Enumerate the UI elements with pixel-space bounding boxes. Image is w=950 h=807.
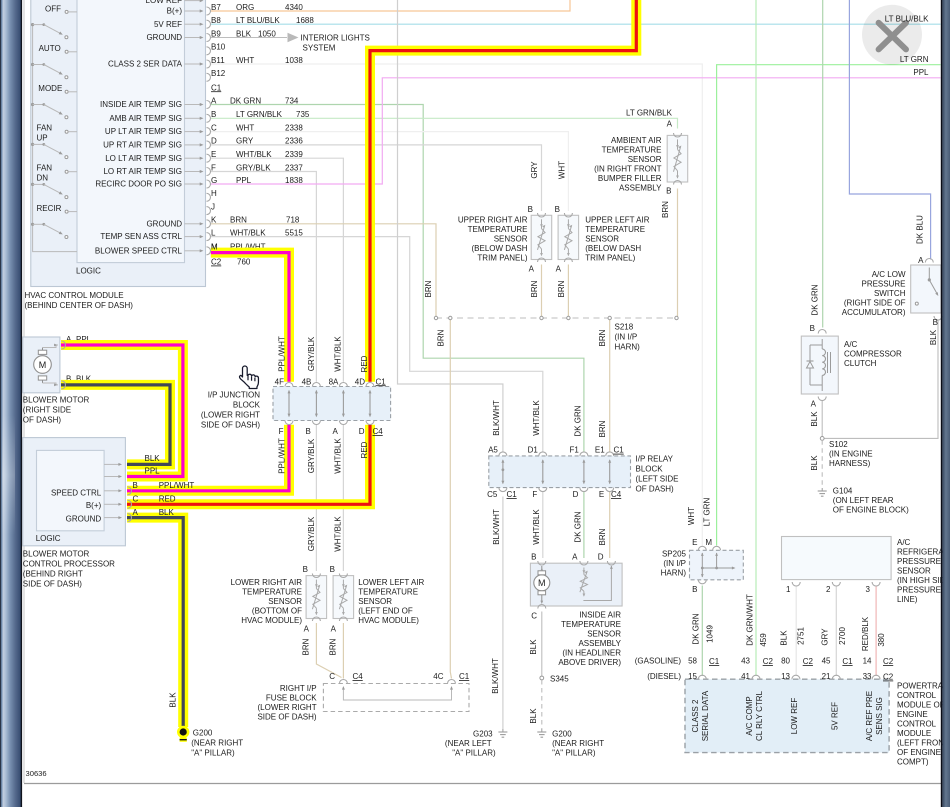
svg-text:LT GRN/BLK: LT GRN/BLK: [236, 110, 283, 119]
svg-text:BLOCK: BLOCK: [233, 401, 261, 410]
wire BLK dashed from splice S345 to ground G200: [541, 680, 543, 729]
svg-text:718: 718: [286, 216, 300, 225]
svg-text:TRIM PANEL): TRIM PANEL): [477, 254, 527, 263]
svg-text:SWITCH: SWITCH: [874, 289, 906, 298]
svg-text:D: D: [359, 427, 365, 436]
svg-text:1050: 1050: [258, 29, 276, 38]
svg-text:GRY/BLK: GRY/BLK: [307, 516, 316, 551]
svg-text:DK GRN: DK GRN: [811, 284, 820, 315]
wire DK GRN 734 from pin A to I/P relay block pin F1: [211, 105, 584, 452]
svg-text:1838: 1838: [285, 176, 303, 185]
svg-text:SENS SIG: SENS SIG: [875, 697, 884, 735]
svg-text:1049: 1049: [706, 625, 715, 643]
svg-text:B8: B8: [211, 16, 221, 25]
svg-text:PPL: PPL: [913, 68, 929, 77]
svg-text:UPPER LEFT AIR: UPPER LEFT AIR: [585, 216, 650, 225]
svg-text:S102: S102: [829, 440, 848, 449]
wire BLK 1050 from pin B9 to interior lights arrow: [211, 37, 287, 39]
svg-text:LOWER LEFT AIR: LOWER LEFT AIR: [358, 578, 424, 587]
svg-text:INSIDE AIR: INSIDE AIR: [579, 611, 621, 620]
wire BRN lower right sensor pin A to fuse block pin C: [316, 623, 341, 678]
svg-text:(BOTTOM OF: (BOTTOM OF: [252, 607, 302, 616]
svg-text:A: A: [811, 400, 817, 409]
svg-text:UP LT AIR TEMP SIG: UP LT AIR TEMP SIG: [105, 127, 182, 136]
HVAC module connector C1 pin rows B7-B12: [207, 7, 211, 15]
svg-text:(BEHIND RIGHT: (BEHIND RIGHT: [23, 570, 83, 579]
wire WHT 1038 from pin B11 to SP205 pin E: [211, 64, 703, 546]
svg-text:LOW REF: LOW REF: [146, 0, 183, 5]
wire ORG 4340 from pin B7 to top edge: [211, 0, 570, 11]
svg-text:F: F: [211, 163, 216, 172]
svg-text:2: 2: [826, 585, 831, 594]
svg-text:COMPRESSOR: COMPRESSOR: [844, 350, 902, 359]
junction block pin 4B (top) / B (bottom) with pass-through: [312, 383, 320, 387]
svg-text:CLASS 2 SER DATA: CLASS 2 SER DATA: [108, 60, 183, 69]
svg-text:C1: C1: [507, 490, 518, 499]
svg-text:A/C: A/C: [897, 538, 911, 547]
wire BRN from splice S218 down to fuse block pin 4C: [450, 318, 451, 679]
svg-text:30636: 30636: [26, 769, 47, 778]
svg-text:BUMPER FILLER: BUMPER FILLER: [598, 174, 662, 183]
svg-text:BLK: BLK: [810, 411, 819, 427]
mouse cursor hand pointer: [240, 366, 259, 389]
svg-text:TEMPERATURE: TEMPERATURE: [242, 588, 302, 597]
wire GRY/BLK 2337 from pin F to I/P junction block pin 4B: [211, 172, 317, 382]
processor BLK input pin from blower motor: [104, 463, 118, 465]
svg-text:BLOCK: BLOCK: [636, 465, 664, 474]
inside air sensor pins B A D C: [538, 561, 546, 565]
highlighted wire BLK blower motor pin B to processor BLK input: [61, 385, 170, 465]
svg-text:LT GRN/BLK: LT GRN/BLK: [626, 109, 673, 118]
svg-text:1: 1: [786, 585, 791, 594]
svg-text:SIDE OF DASH): SIDE OF DASH): [257, 713, 316, 722]
svg-text:SENSOR: SENSOR: [585, 235, 619, 244]
svg-text:B: B: [555, 205, 560, 214]
right I/P fuse block: [323, 684, 469, 712]
svg-text:LOGIC: LOGIC: [76, 267, 101, 276]
wire BLK dashed from splice S102 to ground G104: [821, 440, 823, 488]
svg-text:MODULE OR: MODULE OR: [897, 701, 946, 710]
svg-text:2336: 2336: [285, 137, 303, 146]
svg-text:BLK: BLK: [159, 508, 175, 517]
svg-text:A: A: [918, 256, 924, 265]
svg-text:LT GRN: LT GRN: [703, 497, 712, 526]
svg-text:J: J: [211, 202, 215, 211]
svg-text:SENSOR: SENSOR: [494, 235, 528, 244]
svg-text:PPL: PPL: [145, 467, 161, 476]
svg-text:C1: C1: [376, 377, 387, 386]
svg-text:A: A: [133, 508, 139, 517]
svg-text:13: 13: [781, 672, 790, 681]
svg-text:4B: 4B: [302, 377, 312, 386]
wire BRN from splice S218 down to I/P relay block pin E1: [609, 318, 611, 452]
svg-text:21: 21: [822, 672, 831, 681]
svg-text:TRIM PANEL): TRIM PANEL): [585, 254, 635, 263]
svg-text:B: B: [692, 585, 697, 594]
svg-text:OFF: OFF: [45, 4, 61, 13]
svg-text:41: 41: [741, 672, 750, 681]
wire BRN upper right air temperature sensor pin A to splice S218: [541, 265, 543, 319]
svg-text:L: L: [211, 228, 216, 237]
wire LT GRN/BLK 735 from pin B to ambient air temperature sensor pin A: [211, 118, 678, 128]
svg-text:TEMPERATURE: TEMPERATURE: [358, 588, 418, 597]
svg-text:D: D: [598, 553, 604, 562]
powertrain control module PCM: [685, 679, 889, 752]
svg-text:PPL/WHT: PPL/WHT: [159, 481, 195, 490]
svg-text:SENSOR: SENSOR: [628, 155, 662, 164]
svg-text:UP RT AIR TEMP SIG: UP RT AIR TEMP SIG: [103, 141, 182, 150]
svg-text:FAN: FAN: [37, 163, 53, 172]
svg-text:CONTROL PROCESSOR: CONTROL PROCESSOR: [23, 560, 115, 569]
svg-text:B7: B7: [211, 3, 221, 12]
svg-text:4D: 4D: [355, 377, 365, 386]
svg-text:GRY: GRY: [821, 628, 830, 646]
svg-text:HARNESS): HARNESS): [829, 459, 871, 468]
svg-text:BRN: BRN: [230, 216, 247, 225]
svg-text:C1: C1: [459, 672, 470, 681]
svg-text:OF ENGINE BLOCK): OF ENGINE BLOCK): [833, 506, 909, 515]
svg-text:BLK: BLK: [236, 29, 252, 38]
svg-text:CONTROL: CONTROL: [897, 691, 937, 700]
svg-text:UPPER RIGHT AIR: UPPER RIGHT AIR: [458, 216, 528, 225]
wire WHT/BLK 5515 from pin L to I/P relay block pin D1: [211, 237, 543, 452]
svg-text:(LEFT SIDE: (LEFT SIDE: [636, 475, 679, 484]
svg-text:C: C: [531, 612, 537, 621]
svg-text:E: E: [692, 538, 697, 547]
svg-text:LT BLU/BLK: LT BLU/BLK: [236, 16, 280, 25]
svg-text:BLOWER MOTOR: BLOWER MOTOR: [23, 550, 90, 559]
splice dots on S218: [434, 316, 437, 319]
clutch diode CR1: [809, 345, 811, 361]
svg-text:PRESSURE: PRESSURE: [897, 557, 941, 566]
wire BRN 718 from pin K to splice S218: [211, 224, 436, 318]
svg-text:HARN): HARN): [661, 569, 687, 578]
blower motor control processor U2: [23, 438, 126, 546]
PCM pin 5V REF: [832, 675, 840, 679]
svg-text:I/P JUNCTION: I/P JUNCTION: [208, 391, 261, 400]
svg-text:E: E: [599, 490, 604, 499]
svg-text:SENSOR: SENSOR: [268, 597, 302, 606]
svg-text:(NEAR RIGHT: (NEAR RIGHT: [552, 739, 604, 748]
svg-text:INTERIOR LIGHTS: INTERIOR LIGHTS: [301, 34, 370, 43]
svg-text:B: B: [211, 110, 216, 119]
svg-text:BRN: BRN: [329, 638, 338, 655]
wire DK GRN from top edge to A/C compressor clutch pin B: [822, 0, 824, 328]
svg-text:B: B: [531, 553, 536, 562]
svg-text:RECIR: RECIR: [37, 204, 62, 213]
svg-text:4340: 4340: [285, 3, 303, 12]
svg-text:3: 3: [866, 585, 871, 594]
svg-text:A: A: [333, 427, 339, 436]
svg-text:B(+): B(+): [86, 501, 102, 510]
svg-text:A/C: A/C: [844, 340, 858, 349]
splice S218 dashed bus in I/P harness: [436, 317, 677, 319]
relay block pin D1 (top) / F (bottom) with pass-through: [539, 452, 547, 456]
svg-text:LINE): LINE): [897, 595, 918, 604]
svg-text:SIDE OF DASH): SIDE OF DASH): [201, 421, 260, 430]
svg-text:INSIDE AIR TEMP SIG: INSIDE AIR TEMP SIG: [100, 100, 182, 109]
svg-text:E1: E1: [595, 446, 605, 455]
processor PPL input pin from blower motor: [104, 476, 118, 478]
svg-text:B: B: [666, 187, 671, 196]
HVAC control module U1 outer box: [31, 0, 206, 287]
svg-text:C4: C4: [353, 672, 364, 681]
svg-text:BLK: BLK: [529, 708, 538, 724]
fuse block internal connection C to 4C: [343, 687, 451, 700]
svg-text:(NEAR LEFT: (NEAR LEFT: [445, 739, 492, 748]
svg-text:C: C: [329, 672, 335, 681]
svg-text:LOW REF: LOW REF: [790, 698, 799, 735]
highlighted wire PPL/WHT 760 from HVAC module pin M through junction 4F to processor pin B: [211, 253, 289, 382]
HVAC module connector C2 pin rows A-M: [207, 101, 211, 109]
upper left air temperature sensor RT2: [558, 215, 579, 259]
svg-text:ORG: ORG: [236, 3, 254, 12]
wire LT GRN from right edge to SP205 pin M: [717, 65, 941, 546]
low pressure switch pins A B: [925, 259, 933, 263]
svg-text:2700: 2700: [838, 627, 847, 645]
svg-text:B: B: [528, 205, 533, 214]
splice S345: [540, 676, 544, 680]
fuse block pin 4C: [448, 680, 456, 684]
svg-text:80: 80: [781, 657, 790, 666]
wire BLK from A/C compressor clutch pin A to splice S102: [821, 400, 823, 437]
clutch pins B A: [818, 330, 826, 334]
wire BRN upper left air temperature sensor pin A to splice S218: [567, 265, 569, 319]
svg-text:DK GRN: DK GRN: [692, 613, 701, 644]
blower motor M1: [23, 337, 60, 393]
wire GRY 2700 pressure sensor pin 2 to PCM 5V REF pin: [835, 586, 837, 677]
svg-text:RED: RED: [360, 355, 369, 372]
svg-text:(BEHIND CENTER OF DASH): (BEHIND CENTER OF DASH): [25, 301, 134, 310]
svg-text:B: B: [330, 565, 335, 574]
svg-text:BLK/WHT: BLK/WHT: [492, 400, 501, 436]
svg-text:B(+): B(+): [167, 7, 183, 16]
junction block pin 4F (top) / F (bottom) with pass-through: [285, 383, 293, 387]
wire RED/BLK 380 pressure sensor pin 3 to PCM A/C REF PRE SENS SIG pin: [875, 586, 877, 677]
I/P junction block: [273, 387, 391, 421]
svg-text:"A" PILLAR): "A" PILLAR): [191, 749, 235, 758]
svg-text:ACCUMULATOR): ACCUMULATOR): [842, 308, 906, 317]
svg-text:ASSEMBLY: ASSEMBLY: [578, 639, 621, 648]
svg-text:B10: B10: [211, 43, 226, 52]
svg-text:(IN ENGINE: (IN ENGINE: [829, 450, 873, 459]
svg-text:5V REF: 5V REF: [831, 702, 840, 730]
svg-text:BRN: BRN: [598, 329, 607, 346]
close button overlay: [862, 5, 922, 65]
svg-text:RECIRC DOOR PO SIG: RECIRC DOOR PO SIG: [95, 180, 182, 189]
svg-text:WHT: WHT: [236, 123, 254, 132]
svg-text:TEMP SEN ASS CTRL: TEMP SEN ASS CTRL: [100, 232, 182, 241]
svg-text:2339: 2339: [285, 150, 303, 159]
svg-text:45: 45: [822, 657, 831, 666]
svg-text:K: K: [211, 216, 217, 225]
svg-text:RED/BLK: RED/BLK: [861, 616, 870, 651]
relay block internal dot on A5 line: [502, 468, 505, 471]
svg-text:"A" PILLAR): "A" PILLAR): [552, 749, 596, 758]
svg-text:S345: S345: [550, 675, 569, 684]
wire WHT/BLK from relay block pin F to inside air temperature sensor pin B: [542, 492, 544, 558]
svg-text:735: 735: [296, 110, 310, 119]
svg-text:GRY: GRY: [530, 161, 539, 179]
svg-text:BLOWER MOTOR: BLOWER MOTOR: [23, 396, 90, 405]
svg-text:A: A: [572, 553, 578, 562]
svg-text:1038: 1038: [285, 56, 303, 65]
svg-text:RIGHT I/P: RIGHT I/P: [280, 684, 317, 693]
splice S102: [820, 437, 824, 441]
svg-text:FUSE BLOCK: FUSE BLOCK: [266, 694, 317, 703]
svg-text:14: 14: [863, 657, 872, 666]
svg-text:33: 33: [863, 672, 872, 681]
svg-text:A5: A5: [488, 446, 498, 455]
svg-text:C: C: [133, 495, 139, 504]
svg-text:A: A: [667, 120, 673, 129]
svg-text:B: B: [933, 318, 938, 327]
svg-text:WHT: WHT: [558, 161, 567, 179]
svg-text:COMPT): COMPT): [897, 758, 929, 767]
fuse block pin C: [339, 680, 347, 684]
svg-text:HVAC MODULE): HVAC MODULE): [241, 616, 302, 625]
svg-text:ENGINE: ENGINE: [897, 710, 928, 719]
svg-text:PPL/WHT: PPL/WHT: [278, 336, 287, 372]
ground G200 near right A pillar (inside air sensor branch): [541, 729, 543, 732]
svg-text:CLUTCH: CLUTCH: [844, 359, 877, 368]
svg-text:BLK: BLK: [529, 639, 538, 655]
svg-text:DN: DN: [37, 174, 49, 183]
svg-text:C1: C1: [842, 657, 853, 666]
svg-text:380: 380: [877, 633, 886, 647]
svg-text:WHT/BLK: WHT/BLK: [532, 509, 541, 545]
svg-text:TEMPERATURE: TEMPERATURE: [602, 146, 662, 155]
svg-text:S218: S218: [615, 323, 634, 332]
SP205 pins E M B: [698, 546, 706, 550]
svg-text:C5: C5: [487, 490, 498, 499]
svg-text:RED: RED: [159, 495, 176, 504]
svg-text:(LEFT END OF: (LEFT END OF: [358, 607, 413, 616]
svg-text:B11: B11: [211, 56, 225, 65]
svg-text:ASSEMBLY: ASSEMBLY: [619, 184, 662, 193]
wire WHT 2338 from pin C to upper left air temperature sensor pin B: [211, 132, 569, 211]
svg-text:SYSTEM: SYSTEM: [303, 44, 336, 53]
wire BLK from A/C low pressure switch pin B down and to splice S102: [824, 320, 938, 439]
svg-text:BRN: BRN: [424, 280, 433, 297]
A/C refrigerant pressure sensor B1: [782, 537, 892, 580]
svg-text:SIDE OF DASH): SIDE OF DASH): [23, 580, 82, 589]
relay block pin A5 (top) / C5 (bottom) with pass-through: [499, 452, 507, 456]
svg-text:BRN: BRN: [557, 280, 566, 297]
svg-text:GRY/BLK: GRY/BLK: [307, 336, 316, 371]
svg-text:GROUND: GROUND: [146, 33, 182, 42]
svg-text:BLK: BLK: [810, 455, 819, 471]
svg-text:58: 58: [688, 657, 697, 666]
svg-text:DK GRN: DK GRN: [574, 511, 583, 542]
wire DK BLU from top edge to A/C low pressure switch pin A: [849, 0, 930, 260]
svg-text:HVAC MODULE): HVAC MODULE): [358, 616, 419, 625]
I/P relay block: [489, 456, 631, 488]
svg-text:I/P RELAY: I/P RELAY: [636, 455, 674, 464]
svg-text:GRY/BLK: GRY/BLK: [236, 163, 271, 172]
svg-text:B: B: [133, 481, 138, 490]
svg-text:G104: G104: [833, 487, 853, 496]
svg-text:WHT/BLK: WHT/BLK: [532, 400, 541, 436]
svg-text:BRN: BRN: [661, 201, 670, 218]
svg-text:M: M: [39, 360, 47, 370]
svg-text:HVAC CONTROL MODULE: HVAC CONTROL MODULE: [25, 291, 124, 300]
svg-text:WHT/BLK: WHT/BLK: [236, 150, 272, 159]
junction block pin 4D (top) / D (bottom) with pass-through: [366, 383, 374, 387]
wire BRN from relay block pin E to inside air temperature sensor pin D: [609, 492, 611, 558]
svg-text:SENSOR: SENSOR: [897, 567, 931, 576]
svg-text:WHT/BLK: WHT/BLK: [230, 228, 266, 237]
svg-text:LOGIC: LOGIC: [36, 534, 61, 543]
svg-text:G: G: [211, 176, 217, 185]
wire BLK/WHT from relay block pin C5 to ground G203: [502, 497, 504, 730]
switch compartment outline: [33, 25, 77, 252]
ambient air temperature sensor RT3: [667, 135, 688, 182]
svg-text:(IN RIGHT FRONT: (IN RIGHT FRONT: [594, 165, 662, 174]
svg-text:LT GRN: LT GRN: [900, 55, 929, 64]
svg-text:B9: B9: [211, 29, 221, 38]
svg-text:2337: 2337: [285, 163, 303, 172]
svg-text:LO RT AIR TEMP SIG: LO RT AIR TEMP SIG: [103, 167, 182, 176]
svg-text:1688: 1688: [296, 16, 314, 25]
svg-text:BRN: BRN: [302, 638, 311, 655]
wire BRN ambient air temperature sensor pin B to splice S218: [677, 189, 679, 319]
svg-text:SENSOR: SENSOR: [358, 597, 392, 606]
svg-text:SERIAL DATA: SERIAL DATA: [701, 690, 710, 741]
svg-text:BLK: BLK: [169, 692, 178, 708]
svg-text:(ON LEFT REAR: (ON LEFT REAR: [833, 496, 894, 505]
svg-text:MODE: MODE: [38, 84, 62, 93]
svg-text:A: A: [331, 625, 337, 634]
svg-text:PPL/WHT: PPL/WHT: [278, 438, 287, 474]
svg-text:TEMPERATURE: TEMPERATURE: [561, 620, 621, 629]
svg-text:D: D: [573, 490, 579, 499]
PCM pin CLASS 2 SERIAL DATA: [698, 675, 706, 679]
ground G203 near left A pillar: [502, 729, 504, 732]
svg-text:734: 734: [285, 96, 299, 105]
svg-text:OF ENGINE: OF ENGINE: [897, 748, 941, 757]
svg-text:WHT: WHT: [687, 507, 696, 525]
svg-text:CL RLY CTRL: CL RLY CTRL: [755, 690, 764, 741]
svg-text:AMBIENT AIR: AMBIENT AIR: [611, 136, 662, 145]
svg-text:F: F: [279, 427, 284, 436]
svg-text:CONTROL: CONTROL: [897, 720, 937, 729]
svg-text:(NEAR RIGHT: (NEAR RIGHT: [191, 739, 243, 748]
svg-text:PRESSURE: PRESSURE: [861, 280, 905, 289]
svg-text:GRY/BLK: GRY/BLK: [307, 438, 316, 473]
svg-text:BLK/WHT: BLK/WHT: [491, 658, 500, 694]
svg-text:(IN I/P: (IN I/P: [615, 333, 638, 342]
svg-text:A: A: [556, 265, 562, 274]
svg-text:LO LT AIR TEMP SIG: LO LT AIR TEMP SIG: [105, 154, 182, 163]
svg-text:15: 15: [688, 672, 697, 681]
svg-text:DK BLU: DK BLU: [916, 215, 925, 244]
wire WHT 2751? pressure sensor pin 1 to PCM LOW REF pin: [795, 586, 797, 677]
relay block pin F1 (top) / D (bottom) with pass-through: [580, 452, 588, 456]
svg-text:F1: F1: [570, 446, 580, 455]
svg-text:A/C REF PRE: A/C REF PRE: [865, 691, 874, 741]
diagram frame bottom border: [24, 783, 941, 785]
svg-text:MODULE: MODULE: [897, 729, 931, 738]
pressure sensor pins 1 2 3: [792, 582, 800, 586]
svg-text:TEMPERATURE: TEMPERATURE: [468, 225, 528, 234]
PCM pin A/C COMP CL RLY CTRL: [752, 675, 760, 679]
svg-text:OF DASH): OF DASH): [636, 485, 675, 494]
wire DK GRN 1049 from SP205 pin B to PCM CLASS 2 SERIAL DATA pin: [701, 586, 703, 677]
svg-text:C4: C4: [611, 490, 622, 499]
svg-text:"A" PILLAR): "A" PILLAR): [452, 749, 496, 758]
svg-text:(IN I/P: (IN I/P: [663, 559, 686, 568]
